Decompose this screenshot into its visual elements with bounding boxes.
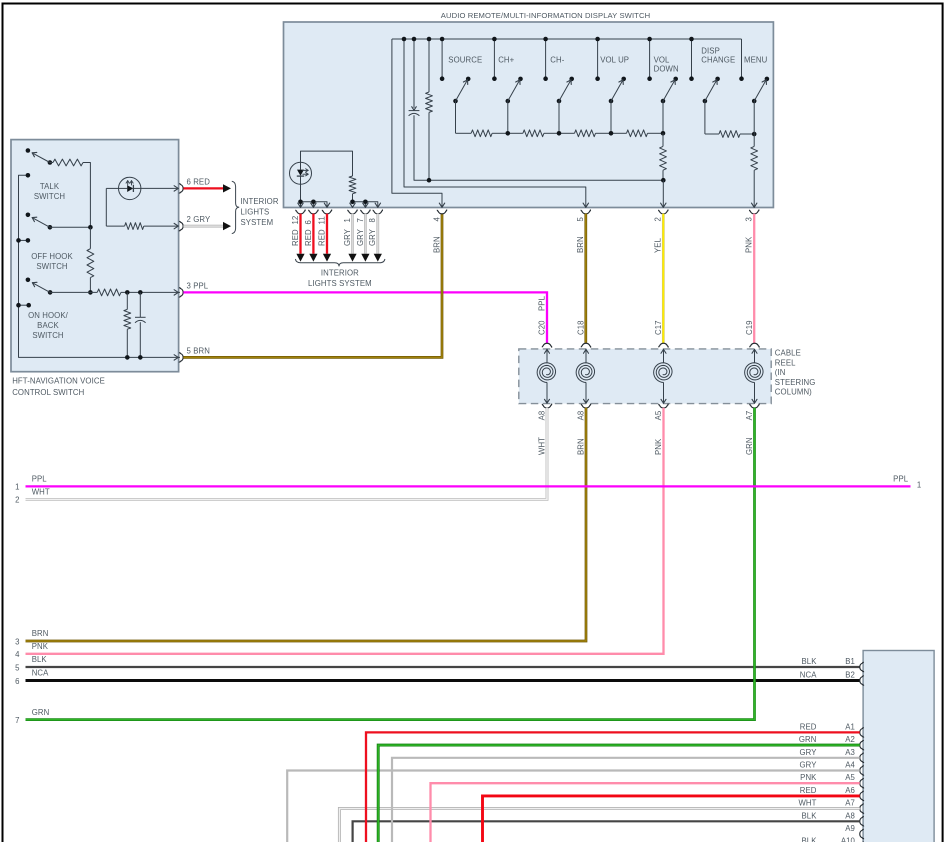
svg-text:WHT: WHT (537, 437, 546, 455)
svg-text:A2: A2 (845, 735, 855, 744)
svg-text:A9: A9 (845, 824, 855, 833)
contact stub for VOL DOWN (649, 39, 651, 79)
svg-text:PPL: PPL (32, 475, 48, 484)
svg-text:2: 2 (654, 217, 663, 221)
svg-text:BACK: BACK (37, 321, 59, 330)
svg-text:BLK: BLK (801, 657, 817, 666)
svg-text:B1: B1 (845, 657, 855, 666)
LED D1 (illumination) (290, 162, 312, 184)
switch CH+ (506, 99, 511, 104)
illumination LED circuit in top box (301, 151, 353, 176)
switch MENU (752, 99, 757, 104)
wire to pin 3 (753, 170, 755, 207)
svg-text:BLK: BLK (32, 655, 48, 664)
svg-text:1: 1 (343, 218, 352, 222)
svg-text:GRY: GRY (368, 228, 377, 246)
svg-text:PPL: PPL (537, 295, 546, 311)
svg-text:PNK: PNK (745, 236, 754, 253)
pin 6 RED (179, 184, 183, 193)
svg-text:3: 3 (745, 217, 754, 221)
svg-text:PNK: PNK (654, 438, 663, 455)
capacitor C1 (139, 292, 141, 317)
svg-text:SWITCH: SWITCH (36, 262, 67, 271)
wire off-hook to pin 3 (174, 290, 178, 293)
audio remote/multi-information display switch box (284, 22, 774, 208)
svg-text:DOWN: DOWN (654, 65, 679, 74)
resistor between switch rows (89, 227, 91, 248)
wire row 4 PNK (26, 408, 664, 654)
pin 12 RED wire (296, 210, 305, 214)
svg-text:12: 12 (291, 216, 300, 225)
svg-text:6 RED: 6 RED (187, 177, 211, 186)
svg-text:SWITCH: SWITCH (32, 331, 63, 340)
pin A1 cup (860, 728, 864, 737)
svg-text:A4: A4 (845, 761, 855, 770)
left bus in HFT box (19, 175, 181, 357)
wire A5 harness (431, 783, 860, 842)
resistor after talk switch (50, 162, 53, 164)
wire row 3 BRN (26, 408, 587, 641)
pin A9 cup (860, 829, 864, 838)
connector C18 top pin (581, 343, 590, 347)
svg-text:C18: C18 (576, 320, 585, 335)
cable reel coil 4 (754, 349, 756, 363)
svg-text:A8: A8 (576, 411, 585, 421)
svg-text:C19: C19 (745, 320, 754, 335)
svg-text:BRN: BRN (32, 629, 49, 638)
svg-text:C17: C17 (654, 320, 663, 335)
pin 2 YEL wire to C17 (659, 210, 668, 214)
pin A5 cup (860, 779, 864, 788)
switch DISP CHANGE (703, 99, 708, 104)
svg-text:5: 5 (576, 217, 585, 222)
wire row 7 GRN (26, 408, 755, 720)
right connector box (863, 651, 934, 842)
svg-text:CONTROL SWITCH: CONTROL SWITCH (12, 388, 84, 397)
connector A8 bottom pin (542, 404, 551, 408)
svg-text:A3: A3 (845, 748, 855, 757)
svg-text:2: 2 (15, 496, 19, 505)
resistor below MENU (753, 101, 755, 146)
pin A2 cup (860, 740, 864, 749)
svg-text:CH-: CH- (550, 55, 564, 64)
pin 1 GRY wire (348, 210, 357, 214)
pin A7 cup (860, 804, 864, 813)
wire A6 harness (483, 796, 860, 842)
svg-text:PNK: PNK (800, 773, 817, 782)
resistor chain DISP CHANGE to MENU (704, 101, 706, 134)
pin 5 BRN wire to audio switch pin 4 (179, 353, 183, 362)
svg-text:BRN: BRN (576, 438, 585, 455)
pin 2 GRY (179, 221, 183, 230)
brace to interior lights system (232, 181, 239, 233)
on hook output wire with resistor (50, 291, 97, 293)
svg-text:VOL UP: VOL UP (600, 55, 629, 64)
pin 6 RED wire (309, 210, 318, 214)
svg-text:3 PPL: 3 PPL (187, 281, 209, 290)
wire to pin 2 (662, 180, 664, 207)
svg-text:A10: A10 (841, 837, 856, 842)
svg-text:5 BRN: 5 BRN (187, 346, 210, 355)
svg-text:NCA: NCA (800, 671, 817, 680)
svg-text:5: 5 (15, 663, 20, 672)
underbrace interior lights system (295, 259, 385, 266)
svg-text:REEL: REEL (775, 358, 796, 367)
svg-text:YEL: YEL (654, 237, 663, 253)
svg-text:A7: A7 (745, 411, 754, 421)
svg-text:LIGHTS SYSTEM: LIGHTS SYSTEM (308, 279, 372, 288)
svg-text:CABLE: CABLE (775, 349, 801, 358)
svg-text:1: 1 (917, 481, 921, 490)
svg-text:3: 3 (15, 637, 19, 646)
svg-text:BLK: BLK (801, 837, 817, 842)
wire V3 to YEL line (414, 115, 663, 180)
svg-text:1: 1 (15, 483, 19, 492)
node: V4 joins YEL line (427, 178, 432, 183)
cable reel coil 2 (585, 349, 587, 363)
connector C19 top pin (750, 343, 759, 347)
svg-text:6: 6 (15, 677, 19, 686)
connector C20 top pin (542, 343, 551, 347)
on hook/back switch (26, 278, 31, 283)
wire V2 to pin 5 (404, 39, 586, 207)
contact stub for MENU (741, 39, 743, 79)
svg-text:RED: RED (304, 229, 313, 246)
contact stub for VOL UP (597, 39, 599, 79)
connector A7 bottom pin (750, 404, 759, 408)
svg-text:8: 8 (368, 218, 377, 222)
node: bus junction V3 (412, 37, 417, 42)
svg-text:BRN: BRN (432, 236, 441, 253)
svg-text:C20: C20 (537, 320, 546, 335)
connector A8 bottom pin (581, 404, 590, 408)
svg-text:A8: A8 (845, 811, 855, 820)
contact stub for CH- (545, 39, 547, 79)
resistor to ground bus (126, 292, 128, 309)
LED D2 in HFT box (105, 188, 107, 226)
connector C17 top pin (659, 343, 668, 347)
svg-text:DISP: DISP (701, 46, 720, 55)
svg-text:GRY: GRY (343, 228, 352, 246)
cable reel box (dashed) (519, 349, 771, 404)
svg-text:RED: RED (317, 229, 326, 246)
resistor chain between switches (455, 101, 457, 133)
cable reel coil 1 (546, 349, 548, 363)
svg-text:(IN: (IN (775, 368, 786, 377)
svg-text:11: 11 (317, 216, 326, 224)
svg-text:MENU: MENU (744, 55, 768, 64)
svg-text:INTERIOR: INTERIOR (321, 269, 359, 278)
switch VOL DOWN (661, 99, 666, 104)
pin A4 cup (860, 766, 864, 775)
pin A3 cup (860, 753, 864, 762)
wire A3 harness (392, 758, 860, 842)
contact stub for SOURCE (441, 39, 443, 79)
wire row 1 PPL (26, 485, 911, 487)
wire A4 harness (287, 771, 860, 842)
svg-text:AUDIO REMOTE/MULTI-INFORMATION: AUDIO REMOTE/MULTI-INFORMATION DISPLAY S… (441, 11, 650, 20)
svg-text:WHT: WHT (32, 488, 50, 497)
svg-text:RED: RED (800, 786, 817, 795)
wire bus to pin 5 (174, 355, 178, 358)
svg-text:4: 4 (15, 650, 20, 659)
svg-text:GRN: GRN (799, 735, 817, 744)
svg-text:CHANGE: CHANGE (701, 56, 735, 65)
svg-text:A5: A5 (654, 410, 663, 420)
svg-text:6: 6 (304, 220, 313, 224)
pin 11 RED wire (322, 210, 331, 214)
svg-text:A5: A5 (845, 773, 855, 782)
svg-text:7: 7 (356, 218, 365, 222)
node: bus junction V4 (427, 37, 432, 42)
pin 8 GRY wire (373, 210, 382, 214)
LED circuit output distribution GRY (353, 202, 378, 208)
talk switch (26, 148, 31, 153)
wire A8 harness (353, 821, 860, 842)
wire LED to pin 6 (141, 187, 178, 189)
node: YEL line junction (661, 178, 666, 183)
svg-text:GRN: GRN (745, 437, 754, 455)
svg-text:B2: B2 (845, 671, 855, 680)
svg-text:GRY: GRY (799, 748, 817, 757)
svg-text:A6: A6 (845, 786, 855, 795)
capacitor on V3 (413, 39, 415, 108)
contact stub for CH+ (493, 39, 495, 79)
svg-text:A8: A8 (537, 411, 546, 421)
svg-text:2 GRY: 2 GRY (187, 215, 211, 224)
connector A5 bottom pin (659, 404, 668, 408)
switch VOL UP (609, 99, 614, 104)
svg-text:A1: A1 (845, 722, 855, 731)
pin A6 cup (860, 791, 864, 800)
HFT-navigation voice control switch box (11, 140, 179, 372)
resistor to pin 2 (106, 225, 124, 227)
wire A2 harness (378, 745, 860, 842)
pin 3 PPL wire to cable reel C20 (179, 288, 183, 297)
svg-text:COLUMN): COLUMN) (775, 388, 812, 397)
svg-text:ON HOOK/: ON HOOK/ (28, 311, 69, 320)
svg-text:STEERING: STEERING (775, 378, 816, 387)
resistor on V4 (428, 39, 430, 92)
svg-text:VOL: VOL (654, 55, 670, 64)
wire row 5 BLK to B1 (26, 666, 860, 668)
svg-text:LIGHTS: LIGHTS (241, 207, 270, 216)
wire row 6 NCA to B2 (26, 679, 860, 682)
wire: top bus (392, 38, 742, 40)
svg-text:RED: RED (291, 229, 300, 246)
resistor in LED circuit (349, 176, 356, 194)
svg-text:HFT-NAVIGATION VOICE: HFT-NAVIGATION VOICE (12, 376, 105, 385)
wire A1 harness (366, 732, 860, 842)
pin B2 cup (860, 676, 864, 685)
pin 4 BRN (437, 210, 446, 214)
wire row 2 WHT (26, 408, 548, 500)
switch CH- (557, 99, 562, 104)
LED circuit output distribution RED (300, 184, 302, 202)
wire A7 harness (339, 809, 859, 842)
svg-text:GRY: GRY (799, 761, 817, 770)
svg-text:BRN: BRN (576, 236, 585, 253)
pin 7 GRY wire (361, 210, 370, 214)
pin B1 cup (860, 662, 864, 671)
svg-text:OFF HOOK: OFF HOOK (31, 252, 73, 261)
svg-text:RED: RED (800, 722, 817, 731)
svg-text:SWITCH: SWITCH (34, 192, 65, 201)
svg-text:NCA: NCA (32, 669, 49, 678)
switch SOURCE (453, 99, 458, 104)
contact stub for DISP CHANGE (691, 39, 693, 79)
pin 5 BRN wire to C18 (581, 210, 590, 214)
resistor below VOL DOWN (662, 133, 664, 146)
wire V1 to pin 4 (392, 39, 442, 207)
svg-text:CH+: CH+ (498, 55, 514, 64)
pin 3 PNK wire to C19 (750, 210, 759, 214)
off hook output wire (50, 226, 91, 228)
svg-text:PNK: PNK (32, 642, 49, 651)
svg-text:WHT: WHT (798, 799, 816, 808)
svg-text:A7: A7 (845, 799, 855, 808)
svg-text:GRY: GRY (356, 228, 365, 246)
svg-text:4: 4 (432, 217, 441, 222)
svg-text:GRN: GRN (32, 708, 50, 717)
svg-text:7: 7 (15, 716, 19, 725)
svg-text:TALK: TALK (40, 182, 60, 191)
pin A8 cup (860, 817, 864, 826)
svg-text:SOURCE: SOURCE (448, 55, 482, 64)
off hook switch (26, 213, 31, 218)
svg-text:INTERIOR: INTERIOR (241, 197, 279, 206)
svg-text:PPL: PPL (893, 475, 909, 484)
node: bus junction V2 (402, 37, 407, 42)
svg-text:SYSTEM: SYSTEM (241, 218, 274, 227)
svg-text:BLK: BLK (801, 811, 817, 820)
cable reel coil 3 (663, 349, 665, 363)
